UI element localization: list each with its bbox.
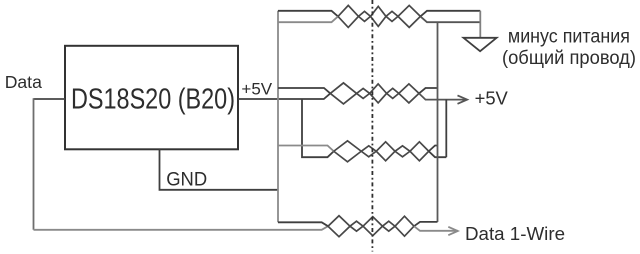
wire +5V right link vertical xyxy=(445,100,447,158)
wire Data stub to box xyxy=(34,98,66,100)
wire pair1 bottom-left lead (gray) xyxy=(278,16,338,22)
wire drop to ground symbol xyxy=(479,11,481,38)
svg-text:Data: Data xyxy=(5,72,42,92)
wire right common bus xyxy=(437,22,439,222)
wire pair1 top-right lead xyxy=(420,11,480,17)
wire +5V branch down to pair3 bottom xyxy=(302,99,334,157)
arrowhead Data 1-Wire xyxy=(448,227,458,235)
twisted pair 2 wire B xyxy=(330,83,419,99)
wire pair1 bottom-right lead xyxy=(420,16,480,22)
wire pair4 top-right lead to right bus xyxy=(414,222,438,226)
twisted pair 4 wire A xyxy=(328,221,414,237)
wire pair2 bottom-right lead to +5V arrow xyxy=(419,93,467,99)
twisted pair 4 wire B xyxy=(328,216,414,232)
twisted pair 1 wire A xyxy=(338,11,420,27)
wire pair4 top-left lead xyxy=(278,222,328,226)
svg-text:+5V: +5V xyxy=(475,87,509,108)
twisted pair 3 wire B xyxy=(334,141,429,157)
wire Data left vertical xyxy=(33,98,35,230)
wire GND from box bottom to left bus xyxy=(160,149,279,190)
svg-text:Data 1-Wire: Data 1-Wire xyxy=(465,223,565,244)
wire left common bus (gray) xyxy=(277,11,279,223)
wire pair1 top-left lead xyxy=(278,11,338,17)
ground symbol (minus supply) xyxy=(464,38,497,51)
svg-text:GND: GND xyxy=(166,169,207,191)
wire +5V from box to pair2 xyxy=(238,93,330,99)
svg-text:минус питания: минус питания xyxy=(508,26,630,47)
sensor box U1 DS18S20 xyxy=(65,46,238,150)
cable boundary dashed line xyxy=(371,0,373,252)
arrowhead +5V xyxy=(458,95,468,103)
wire pair4 bottom-right lead to Data arrow (gray) xyxy=(414,226,458,231)
wire pair3 bottom-right lead to +5V link xyxy=(429,151,447,157)
twisted pair 3 wire A xyxy=(334,146,429,162)
wire pair2 top-left lead xyxy=(278,88,330,93)
wire pair3 top-right lead to right bus xyxy=(429,146,438,152)
svg-text:(общий провод): (общий провод) xyxy=(502,48,636,69)
wire pair3 top-left lead (gray) xyxy=(278,146,334,152)
wire Data bottom run (gray) xyxy=(34,226,329,230)
svg-text:DS18S20 (B20): DS18S20 (B20) xyxy=(71,84,235,116)
twisted pair 2 wire A xyxy=(330,88,419,104)
wire pair2 top-right lead to right bus xyxy=(419,88,438,93)
twisted pair 1 wire B xyxy=(338,5,420,21)
svg-text:+5V: +5V xyxy=(241,80,272,99)
